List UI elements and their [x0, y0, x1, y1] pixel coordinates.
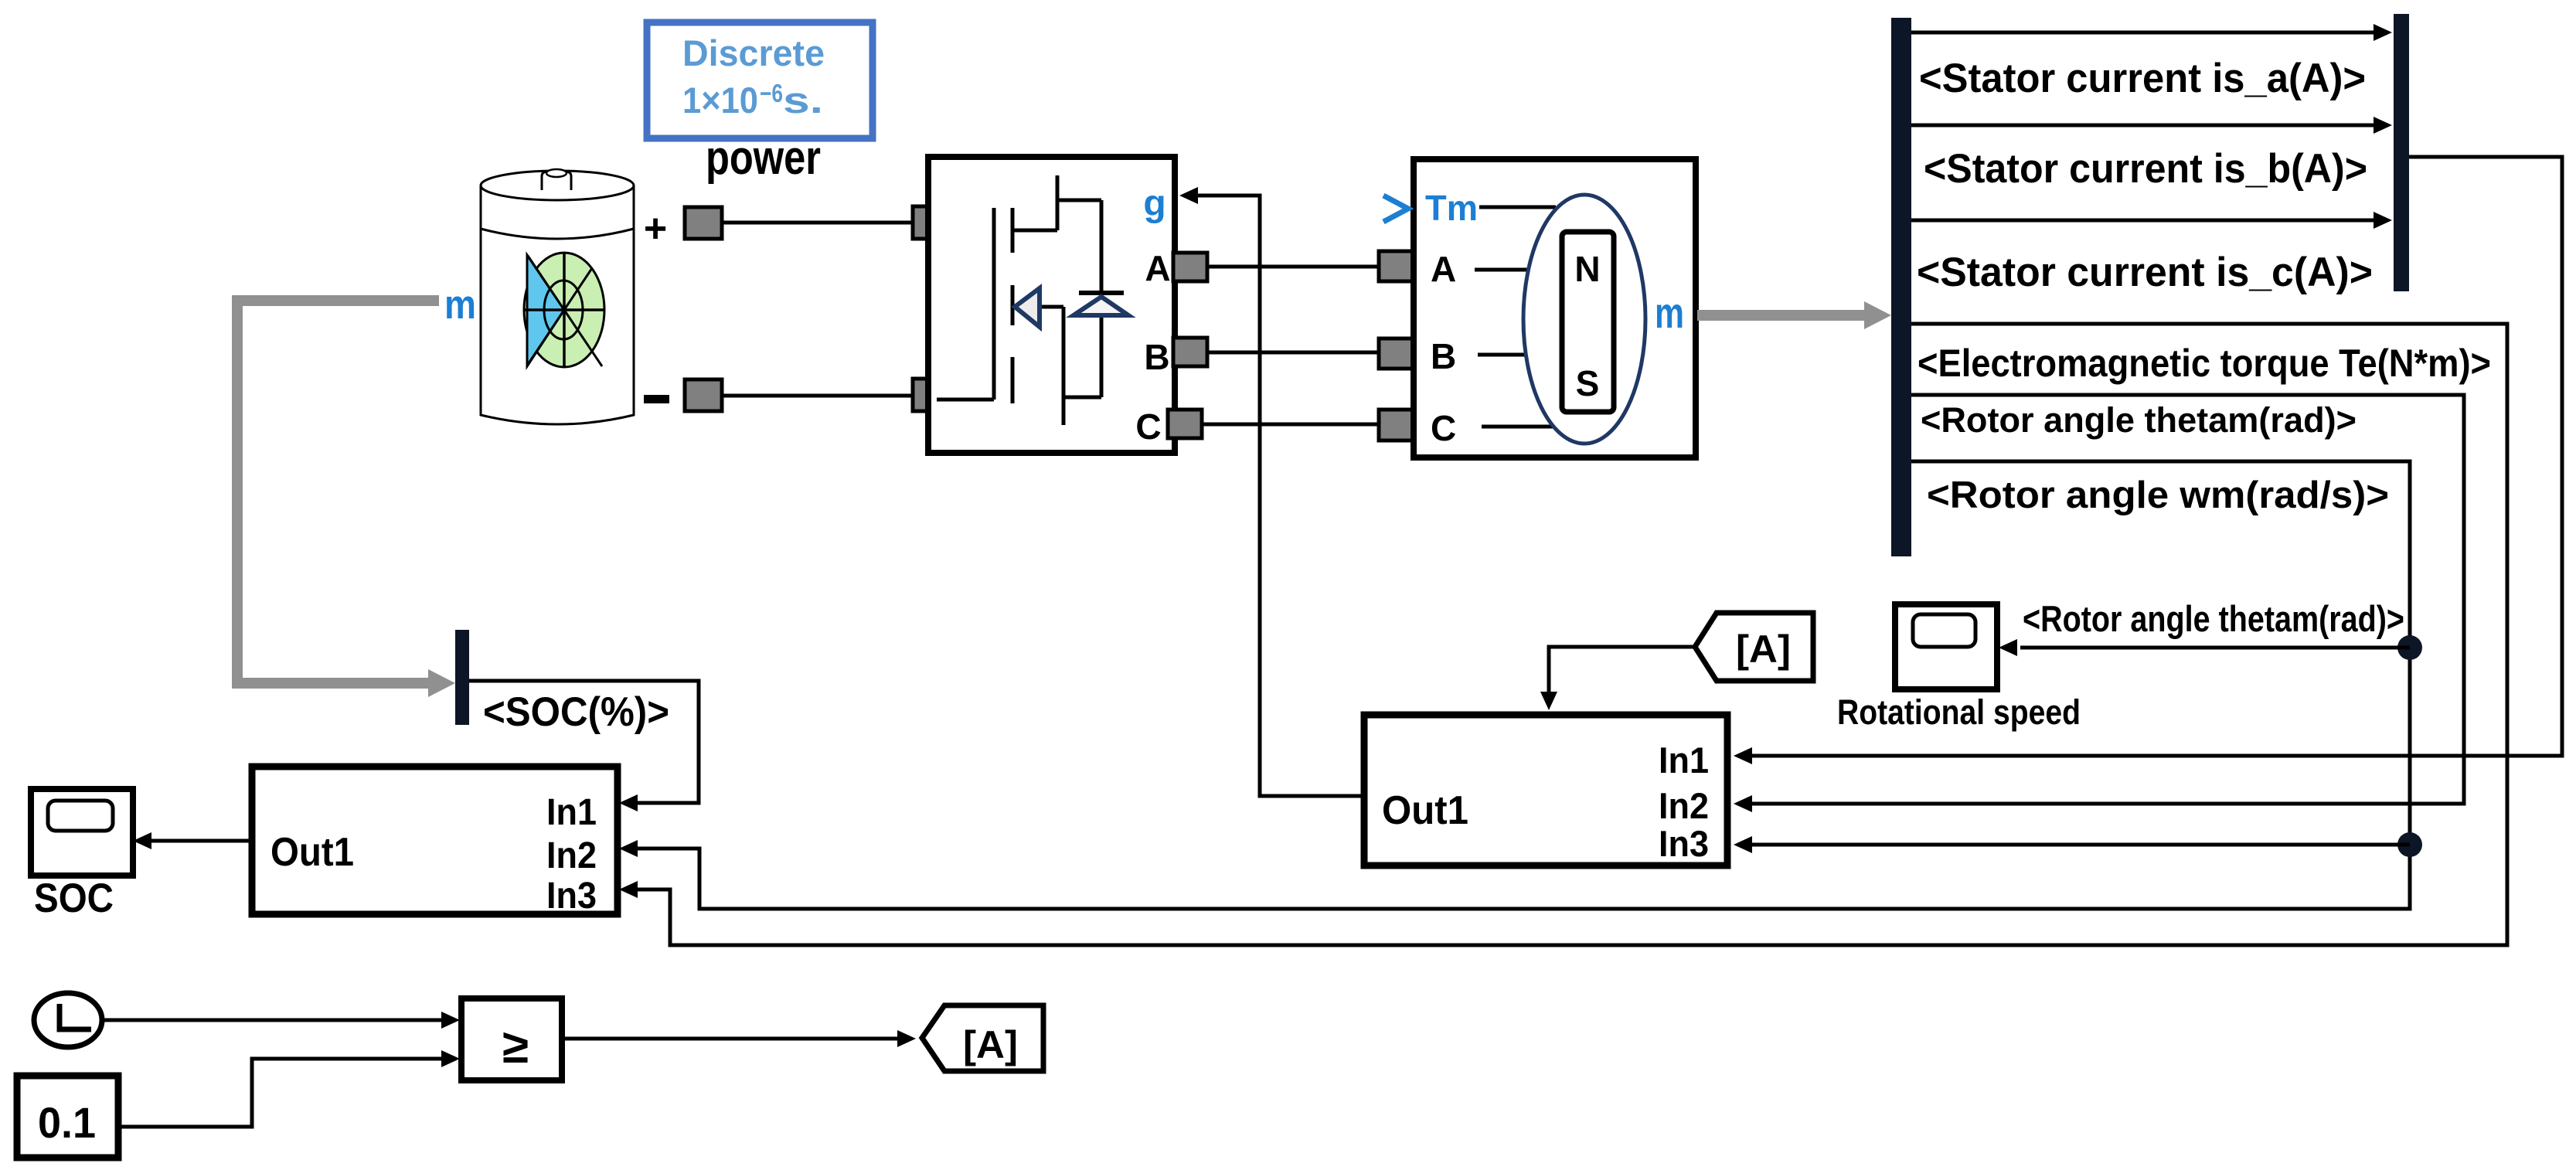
svg-text:[A]: [A]: [1736, 628, 1791, 671]
wire subsystem Out1 to inverter g: [1198, 196, 1364, 796]
signal line wm: [638, 461, 2410, 909]
signal line thetam: [1752, 395, 2464, 804]
svg-text:B: B: [1431, 336, 1456, 376]
svg-text:<Rotor angle thetam(rad)>: <Rotor angle thetam(rad)>: [1921, 400, 2357, 440]
signal line Te: [638, 324, 2507, 945]
wire tap to middle In3: [1752, 843, 2410, 847]
svg-text:Out1: Out1: [271, 830, 354, 875]
svg-text:power: power: [706, 131, 821, 185]
wire phase B: [1207, 351, 1380, 355]
relational operator block: [461, 998, 562, 1080]
wire battery- to inverter: [722, 394, 913, 398]
wire phase C: [1202, 423, 1380, 427]
inverter A port: [1173, 253, 1207, 281]
inverter B port: [1173, 338, 1207, 366]
junction dot In3 tap: [2397, 832, 2422, 857]
inverter left port top: [913, 206, 947, 239]
diode triangle: [1074, 297, 1128, 315]
wire battery+ to inverter: [722, 221, 913, 225]
svg-text:<Stator current is_a(A)>: <Stator current is_a(A)>: [1919, 56, 2366, 101]
svg-text:C: C: [1135, 406, 1161, 447]
svg-text:<Rotor angle wm(rad/s)>: <Rotor angle wm(rad/s)>: [1927, 474, 2389, 516]
scope Rotational speed: [1837, 604, 2081, 732]
svg-text:<SOC(%)>: <SOC(%)>: [483, 689, 669, 735]
svg-text:≥: ≥: [502, 1020, 529, 1073]
wire tap to rotational speed scope: [2020, 646, 2410, 650]
signal line is_c: [1911, 219, 2375, 223]
svg-text:In2: In2: [1659, 785, 1709, 826]
clock block: [34, 993, 102, 1047]
motor A port: [1379, 251, 1413, 281]
svg-text:S: S: [1576, 363, 1600, 403]
gray wire battery m to SOC selector: [237, 301, 439, 683]
wire SOC selector to left In1: [469, 681, 699, 803]
signal line is_a: [1911, 31, 2375, 35]
svg-text:m: m: [444, 282, 476, 328]
svg-text:1×10: 1×10: [682, 80, 758, 121]
Goto tag [A] lower: [922, 1005, 1043, 1071]
svg-text:<Stator current is_c(A)>: <Stator current is_c(A)>: [1917, 250, 2373, 295]
junction dot thetam tap: [2397, 635, 2422, 660]
wire phase A: [1207, 265, 1380, 269]
svg-text:A: A: [1431, 249, 1456, 289]
wire relational operator to goto tag: [562, 1037, 897, 1041]
wire left subsystem to SOC scope: [151, 839, 252, 843]
svg-text:In2: In2: [546, 835, 597, 876]
svg-text:<Stator current is_b(A)>: <Stator current is_b(A)>: [1924, 146, 2367, 192]
svg-text:0.1: 0.1: [38, 1098, 96, 1147]
wire 0.1 to relational operator: [118, 1059, 441, 1127]
battery + port: [685, 207, 722, 239]
bus selector bar: [1891, 18, 1911, 556]
SOC bus selector bar: [455, 630, 469, 725]
mux output wire to In1: [1752, 157, 2562, 756]
wire clock to relational operator: [102, 1019, 441, 1022]
battery - port: [685, 379, 722, 411]
svg-text:g: g: [1143, 183, 1165, 224]
svg-text:SOC: SOC: [34, 876, 114, 921]
SOC scope: [31, 789, 133, 921]
signal line is_b: [1911, 124, 2375, 128]
svg-text:Out1: Out1: [1382, 788, 1468, 833]
From tag [A] upper: [1695, 613, 1813, 681]
svg-text:<Electromagnetic torque Te(N*m: <Electromagnetic torque Te(N*m)>: [1918, 342, 2491, 385]
svg-text:Rotational speed: Rotational speed: [1837, 692, 2081, 732]
constant block 0.1: [17, 1076, 118, 1158]
svg-text:In1: In1: [1659, 740, 1709, 781]
battery block: [481, 169, 634, 424]
svg-text:B: B: [1144, 337, 1169, 377]
motor rotor ellipse: [1523, 195, 1645, 444]
svg-text:[A]: [A]: [963, 1023, 1018, 1066]
svg-text:C: C: [1431, 408, 1456, 448]
svg-text:Discrete: Discrete: [682, 32, 825, 73]
motor Tm port marker: [1383, 196, 1408, 222]
svg-text:<Rotor angle thetam(rad)>: <Rotor angle thetam(rad)>: [2023, 598, 2404, 639]
inverter C port: [1168, 410, 1202, 438]
powergui block Discrete: [647, 22, 873, 138]
svg-text:A: A: [1145, 248, 1170, 288]
mux bar: [2394, 14, 2409, 291]
svg-text:m: m: [1655, 288, 1684, 337]
motor C port: [1379, 410, 1413, 440]
svg-text:s.: s.: [783, 80, 823, 121]
svg-text:−6: −6: [760, 79, 783, 107]
svg-text:Tm: Tm: [1425, 188, 1478, 228]
inverter mosfet symbol: [937, 175, 1101, 425]
left subsystem block: [252, 767, 618, 917]
middle subsystem block: [1364, 715, 1727, 866]
svg-text:N: N: [1574, 249, 1600, 289]
motor block PMSM: [1414, 159, 1696, 457]
svg-text:In3: In3: [1659, 823, 1709, 864]
magnet rect: [1562, 232, 1614, 412]
svg-text:In1: In1: [546, 792, 597, 833]
battery logo: [524, 253, 604, 367]
inverter block: [928, 157, 1175, 453]
gray measurement wire motor to bus selector: [1697, 310, 1870, 321]
wire From tag to subsystem top: [1549, 647, 1695, 692]
diode cathode bar: [1079, 291, 1124, 295]
svg-text:+: +: [644, 206, 667, 251]
svg-text:In3: In3: [546, 876, 597, 917]
motor B port: [1379, 338, 1413, 369]
mosfet source arrow: [1015, 288, 1040, 327]
inverter left port bottom: [913, 379, 947, 411]
